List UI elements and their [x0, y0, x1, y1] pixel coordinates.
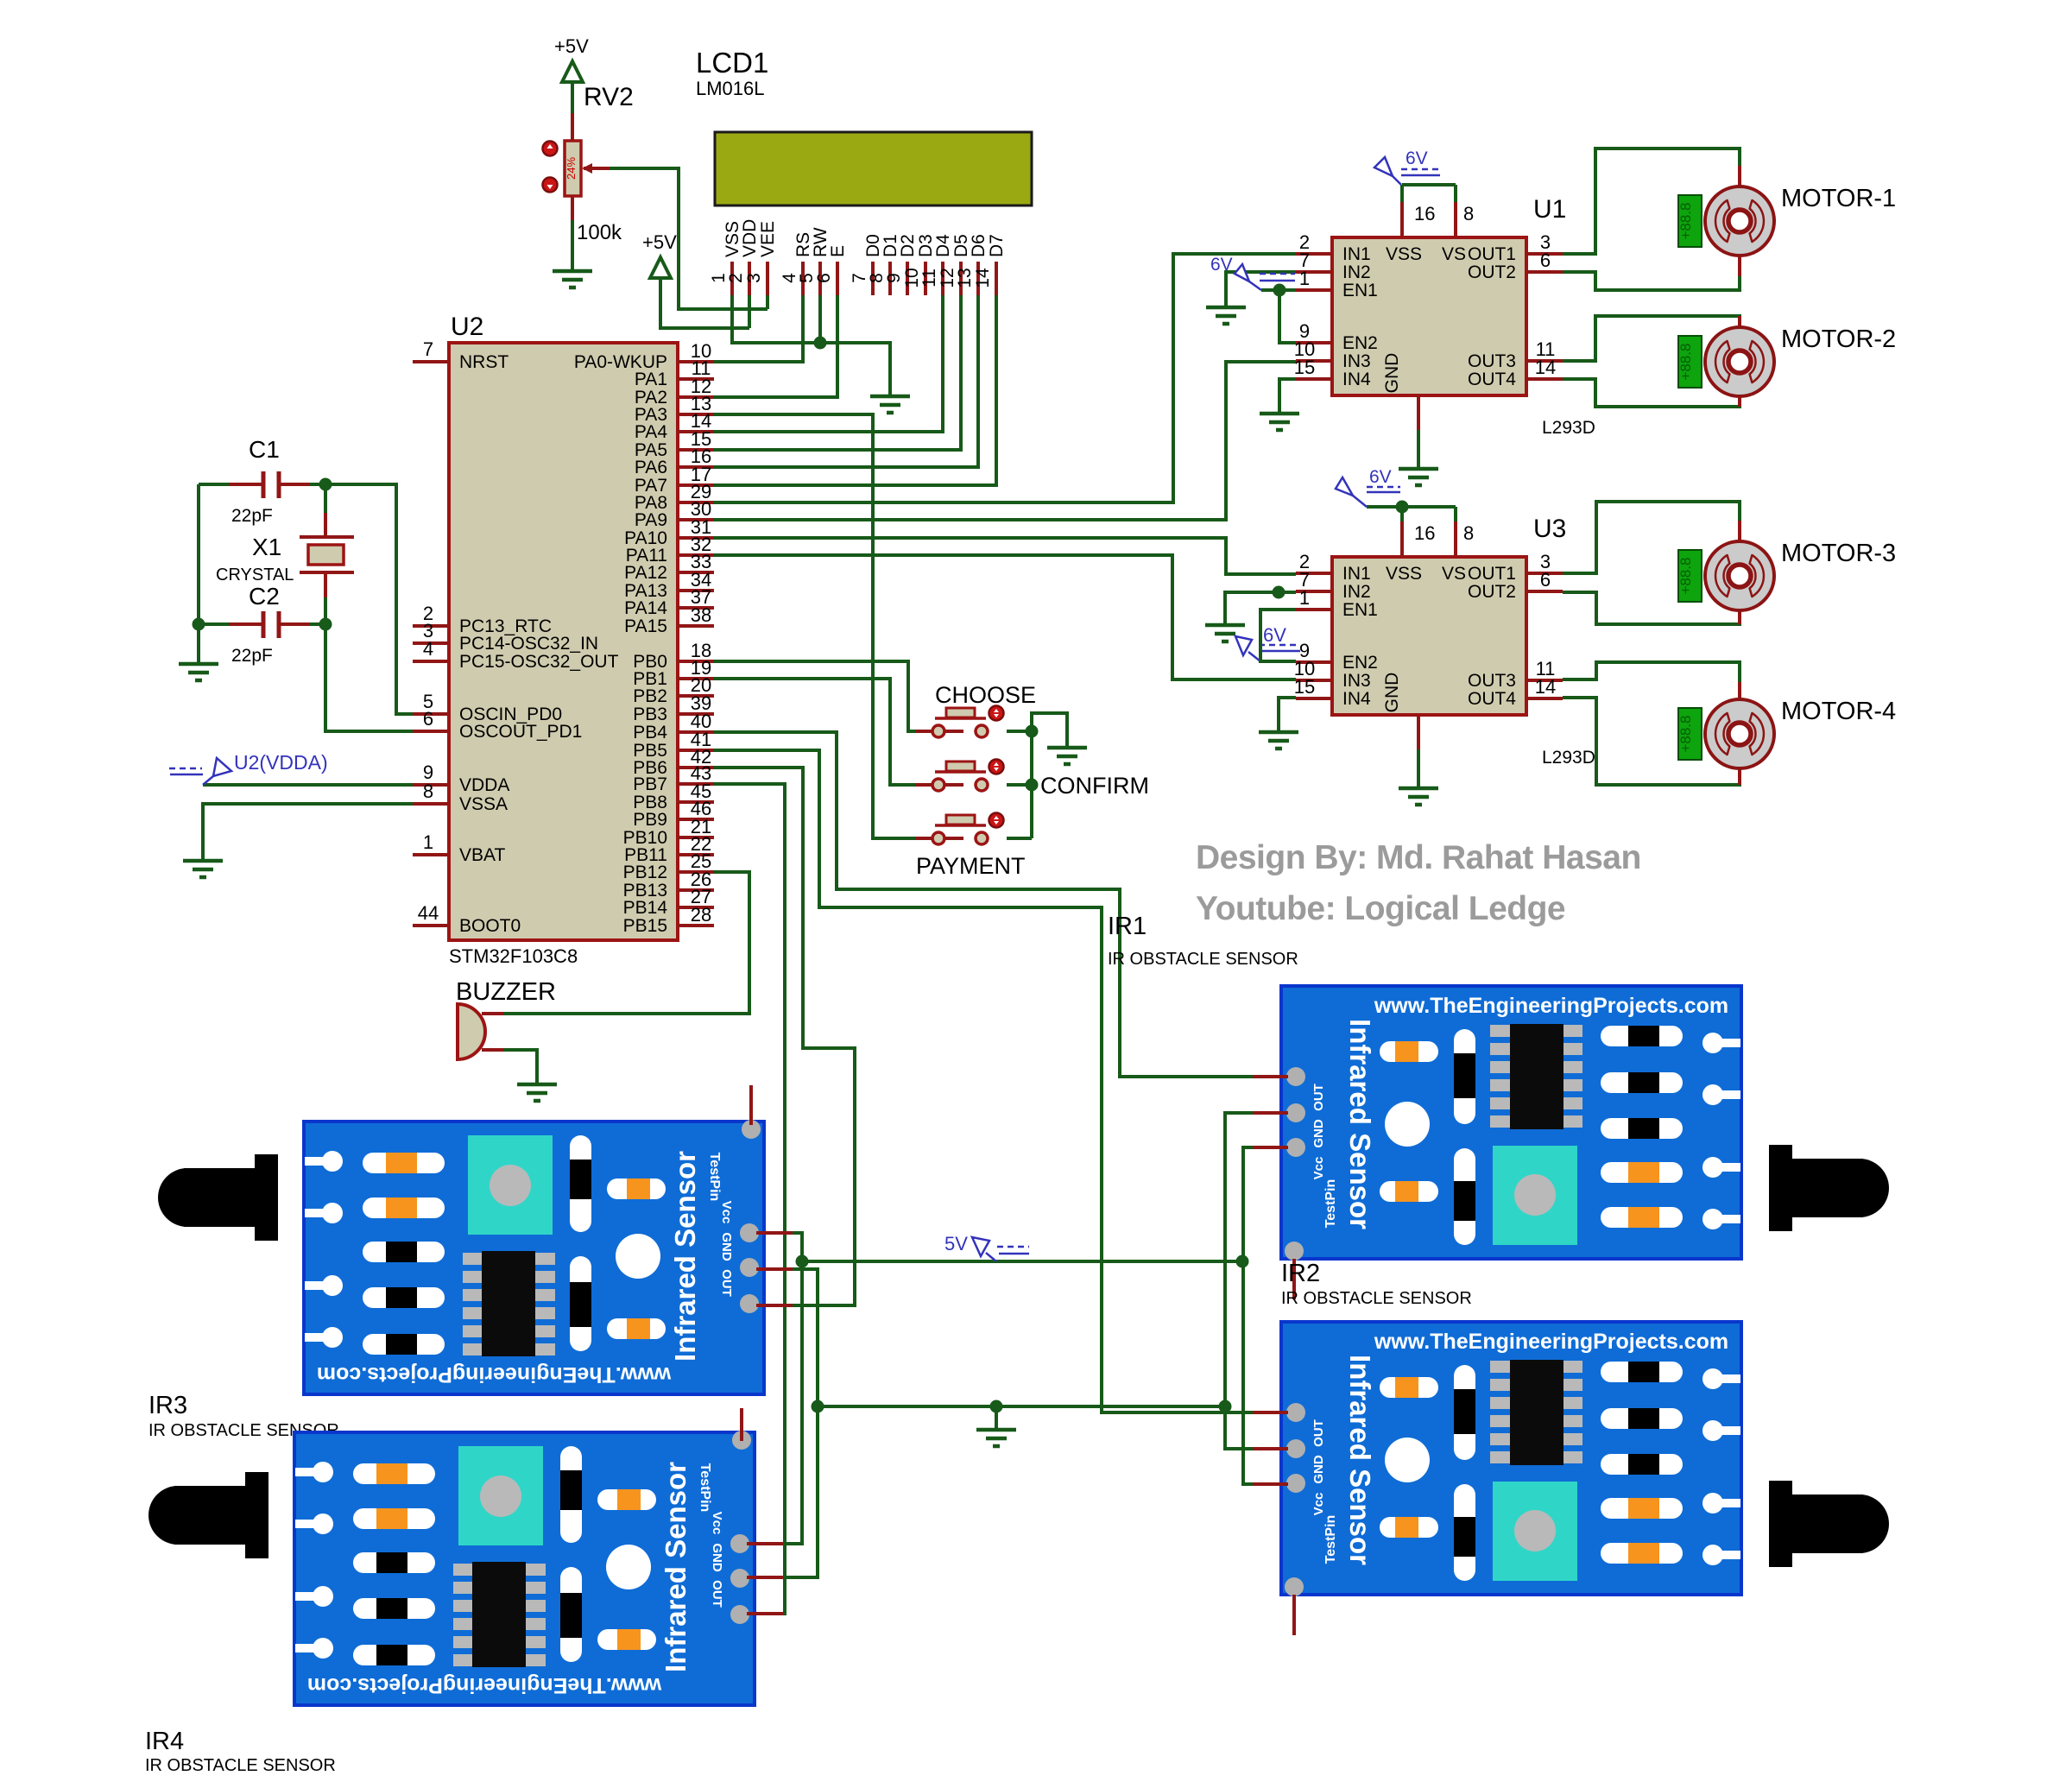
svg-text:IR OBSTACLE SENSOR: IR OBSTACLE SENSOR — [1281, 1289, 1472, 1308]
ground VSSA — [183, 861, 223, 877]
wire U2 PA9 to U1 IN3 — [714, 362, 1296, 520]
svg-text:STM32F103C8: STM32F103C8 — [449, 945, 578, 967]
wire U1 IN4 to ground — [1279, 379, 1296, 414]
svg-text:PC14-OSC32_IN: PC14-OSC32_IN — [459, 634, 598, 654]
junction confirm — [1026, 779, 1039, 792]
motor MOTOR-3 — [1677, 540, 1896, 610]
motor driver U1 L293D — [1294, 195, 1595, 438]
power flag 6V-U3en — [1235, 636, 1300, 661]
svg-text:+5V: +5V — [554, 35, 589, 57]
wire LCD D7 to U2 PA7 — [714, 295, 996, 485]
power flag 6V-U1top — [1374, 157, 1440, 185]
crystal X1 — [216, 534, 354, 585]
svg-text:VEE: VEE — [758, 221, 778, 257]
svg-text:PA6: PA6 — [635, 458, 667, 477]
wire U2 PB5 to IR2 OUT — [714, 750, 1253, 1412]
svg-text:Design By: Md. Rahat Hasan: Design By: Md. Rahat Hasan — [1196, 839, 1641, 876]
ground U3-IN4 — [1259, 732, 1298, 749]
wire U2 PB6 to IR3 OUT — [714, 768, 855, 1305]
svg-text:OSCOUT_PD1: OSCOUT_PD1 — [459, 722, 582, 742]
ground C1C2 — [179, 664, 218, 680]
svg-text:E: E — [828, 245, 848, 257]
svg-text:L293D: L293D — [1542, 418, 1595, 438]
microcontroller U2 STM32F103C8 — [413, 313, 714, 967]
svg-text:PA1: PA1 — [635, 370, 667, 389]
IR4 pin stubs — [742, 1408, 783, 1614]
wire U2 PA10 to U3 IN1 — [714, 538, 1296, 574]
capacitor C2 22pF — [231, 583, 280, 666]
ground buzzer — [517, 1084, 557, 1101]
svg-text:D2: D2 — [898, 234, 918, 257]
junction U3-6V — [1396, 501, 1409, 514]
wire U1 VSS,VS to 6V — [1402, 185, 1456, 202]
svg-text:U2: U2 — [451, 313, 483, 341]
wire U2 PB4 to IR1 OUT — [714, 732, 1253, 1077]
svg-text:PA9: PA9 — [635, 510, 667, 530]
svg-text:6V: 6V — [1369, 467, 1392, 487]
wire 5V rail — [802, 1260, 1242, 1263]
svg-text:PB12: PB12 — [623, 863, 667, 882]
buzzer BUZ1 — [456, 978, 556, 1059]
ground rail — [976, 1430, 1016, 1446]
wire U1 IN2 to ground — [1226, 272, 1296, 307]
wire LCD D5 to U2 PA5 — [714, 295, 961, 450]
svg-text:28: 28 — [691, 904, 711, 926]
IR sensor module IR4 — [145, 1431, 755, 1775]
ground RV2 — [553, 271, 592, 288]
svg-text:4: 4 — [423, 638, 433, 660]
svg-text:22pF: 22pF — [231, 506, 273, 526]
junction choose — [1026, 725, 1039, 738]
junction C2-X1 — [319, 618, 332, 631]
motor driver U3 L293D — [1294, 515, 1595, 768]
junction gnd-mid — [990, 1400, 1003, 1413]
IR2 pin stubs — [1253, 1412, 1294, 1635]
wire U3 VSS,VS to 6V — [1402, 507, 1456, 521]
ground U1-GND — [1399, 469, 1438, 485]
svg-text:6V: 6V — [1210, 255, 1233, 275]
IR sensor module IR2 — [1281, 1260, 1741, 1596]
wire U2 PB12 to buzzer — [503, 872, 749, 1014]
wire U1 GND pin to ground — [1417, 395, 1420, 430]
wire LCD VEE stub — [766, 295, 769, 309]
IR LED of IR2 — [1769, 1481, 1889, 1567]
svg-text:NRST: NRST — [459, 352, 509, 372]
wire CONFIRM to button bus — [1007, 783, 1032, 787]
svg-text:IR2: IR2 — [1281, 1260, 1320, 1287]
wire U1 OUT3 to MOTOR-2 — [1563, 316, 1740, 361]
wire LCD RS to U2 PA0 — [714, 295, 803, 362]
svg-text:PA14: PA14 — [624, 598, 667, 618]
svg-text:VDD: VDD — [740, 219, 760, 257]
svg-text:6: 6 — [814, 273, 834, 283]
power flag 6V-U1en — [1235, 264, 1295, 290]
svg-text:X1: X1 — [252, 534, 281, 560]
svg-text:RV2: RV2 — [584, 83, 634, 111]
svg-text:LM016L: LM016L — [696, 78, 765, 99]
wire C1 left to C2 left to ground — [199, 483, 229, 486]
svg-text:PA4: PA4 — [635, 422, 667, 442]
LCD1 pins — [709, 219, 1007, 295]
svg-text:14: 14 — [973, 268, 993, 288]
IR3 pin stubs — [751, 1085, 793, 1305]
ground U3-IN2 — [1205, 625, 1245, 641]
wire VSSA to ground — [203, 804, 413, 861]
svg-text:PAYMENT: PAYMENT — [916, 853, 1026, 879]
junction C2-left — [193, 618, 205, 631]
wire U3 GND pin to ground — [1417, 715, 1420, 749]
svg-text:VDDA: VDDA — [459, 775, 509, 795]
svg-text:3: 3 — [744, 273, 764, 283]
wire +5V to RV2 — [571, 82, 574, 113]
svg-text:7: 7 — [423, 338, 433, 360]
svg-text:PB3: PB3 — [633, 705, 667, 724]
power +5V arrow VDD — [642, 231, 677, 278]
svg-text:MOTOR-4: MOTOR-4 — [1781, 698, 1896, 725]
svg-text:PA15: PA15 — [624, 616, 667, 636]
wire LCD E to U2 PA2 — [714, 295, 837, 397]
svg-text:U3: U3 — [1533, 515, 1566, 543]
wire PAYMENT right to bus — [1007, 837, 1032, 840]
IR LED of IR1 — [1769, 1145, 1889, 1231]
svg-text:PA12: PA12 — [624, 563, 667, 583]
svg-text:PB2: PB2 — [633, 686, 667, 706]
wire U2 PB0 to CHOOSE — [714, 661, 916, 731]
svg-text:38: 38 — [691, 604, 711, 626]
junction C1-X1 — [319, 478, 332, 491]
wire rail to ground — [995, 1406, 998, 1430]
svg-text:13: 13 — [955, 268, 975, 288]
svg-text:6V: 6V — [1263, 624, 1286, 646]
IR1 pin stubs — [1253, 1077, 1294, 1299]
svg-text:24%: 24% — [565, 157, 578, 180]
junction U1-EN — [1273, 284, 1286, 297]
svg-text:D6: D6 — [969, 234, 989, 257]
wire U3 EN1 EN2 tie — [1260, 610, 1296, 661]
svg-text:100k: 100k — [577, 221, 622, 244]
svg-text:PB15: PB15 — [623, 916, 667, 936]
ground U1-IN2 — [1206, 307, 1246, 324]
svg-text:IR OBSTACLE SENSOR: IR OBSTACLE SENSOR — [1108, 950, 1298, 969]
wire U2 PB1 to CONFIRM — [714, 679, 916, 785]
wire U3 OUT1 to MOTOR-3 — [1563, 502, 1740, 573]
motor MOTOR-4 — [1677, 698, 1896, 768]
wire +5V to LCD VDD — [660, 278, 749, 328]
junction U3-IN2 — [1273, 586, 1286, 599]
wire LCD D4 to U2 PA4 — [714, 295, 943, 432]
ground U1-IN4 — [1260, 414, 1299, 430]
svg-text:44: 44 — [418, 902, 439, 924]
svg-text:9: 9 — [884, 273, 904, 283]
svg-text:U1: U1 — [1533, 195, 1566, 224]
junction 5v-right — [1236, 1255, 1249, 1268]
svg-text:1: 1 — [423, 831, 433, 853]
svg-text:6V: 6V — [1406, 148, 1428, 168]
junction 5v-left — [796, 1255, 809, 1268]
wire U2 PA11 to U3 IN3 — [714, 555, 1296, 679]
svg-text:C2: C2 — [249, 583, 280, 610]
svg-text:D7: D7 — [987, 234, 1007, 257]
svg-text:2: 2 — [726, 273, 746, 283]
wire U3 OUT3 to MOTOR-4 — [1563, 662, 1740, 682]
svg-text:PB7: PB7 — [633, 774, 667, 794]
IR sensor module IR3 — [148, 1120, 764, 1440]
wire CHOOSE to ground — [1007, 713, 1067, 748]
wire IR3 GND down rail to IR4 GND — [783, 1269, 818, 1577]
ground U3-GND — [1399, 788, 1438, 805]
junction gnd-left — [812, 1400, 824, 1413]
svg-text:IR OBSTACLE SENSOR: IR OBSTACLE SENSOR — [145, 1756, 336, 1775]
wire RV2 bottom to ground — [571, 220, 574, 271]
wire U3 OUT4 to MOTOR-4 — [1563, 698, 1740, 785]
svg-text:Youtube: Logical Ledge: Youtube: Logical Ledge — [1196, 890, 1565, 927]
svg-text:D4: D4 — [933, 234, 953, 257]
svg-text:MOTOR-2: MOTOR-2 — [1781, 325, 1896, 353]
svg-text:U2(VDDA): U2(VDDA) — [234, 751, 328, 774]
wire IR1 Vcc down to rail to IR2 Vcc — [1243, 1147, 1253, 1484]
wire C2 right to crystal bottom to OSCOUT — [309, 622, 325, 626]
ground buttons — [1047, 748, 1087, 764]
svg-text:5V: 5V — [944, 1233, 968, 1254]
svg-text:6: 6 — [423, 708, 433, 730]
svg-text:MOTOR-3: MOTOR-3 — [1781, 540, 1896, 567]
svg-text:22pF: 22pF — [231, 646, 273, 666]
IR sensor module IR1 — [1108, 913, 1741, 1261]
svg-text:LCD1: LCD1 — [696, 47, 768, 79]
wire U2 PB7 to IR4 OUT — [714, 784, 785, 1614]
svg-text:BOOT0: BOOT0 — [459, 916, 521, 936]
svg-text:IR1: IR1 — [1108, 913, 1147, 940]
wire IR1 GND to rail to IR2 GND — [1225, 1113, 1253, 1449]
wire U2 PA8 to U1 IN1 — [714, 254, 1296, 502]
svg-text:PB14: PB14 — [623, 898, 668, 918]
IR LED of IR3 — [158, 1154, 278, 1241]
power flag U2(VDDA) — [169, 758, 231, 785]
wire LCD VSS and RW to ground — [732, 295, 890, 396]
motor MOTOR-1 — [1677, 185, 1896, 256]
wire U3 IN4 to ground — [1279, 698, 1296, 732]
wire buzzer to ground — [503, 1050, 537, 1084]
wire U1 EN1 EN2 tie — [1261, 288, 1296, 292]
wire U1 OUT4 to MOTOR-2 — [1563, 379, 1740, 407]
svg-text:BUZZER: BUZZER — [456, 978, 556, 1006]
svg-text:CRYSTAL: CRYSTAL — [216, 566, 294, 585]
svg-text:11: 11 — [919, 269, 939, 288]
svg-text:PC15-OSC32_OUT: PC15-OSC32_OUT — [459, 652, 619, 672]
svg-text:IR4: IR4 — [145, 1728, 184, 1755]
svg-text:L293D: L293D — [1542, 748, 1595, 768]
wire U2 PA3 to PAYMENT — [714, 414, 916, 838]
svg-text:VSSA: VSSA — [459, 794, 508, 814]
wire LCD VDD stub — [748, 295, 751, 328]
wire U1 OUT2 to MOTOR-1 — [1563, 272, 1740, 290]
LCD1 LM016L display — [696, 47, 1032, 205]
power +5V arrow RV2 — [554, 35, 589, 82]
power flag 5V — [972, 1237, 1029, 1261]
motor MOTOR-2 — [1677, 325, 1896, 396]
svg-text:CHOOSE: CHOOSE — [935, 682, 1036, 708]
svg-text:PB9: PB9 — [633, 810, 667, 830]
wire IR3 Vcc to rail to IR4 Vcc — [783, 1233, 802, 1544]
wire U1 OUT1 to MOTOR-1 — [1563, 148, 1740, 254]
svg-text:PB4: PB4 — [633, 723, 667, 742]
svg-text:C1: C1 — [249, 436, 280, 463]
junction gnd-right — [1219, 1400, 1232, 1413]
IR LED of IR4 — [148, 1472, 268, 1558]
wire GND rail — [818, 1405, 1225, 1408]
svg-text:8: 8 — [423, 780, 433, 802]
resistor RV2 100k potentiometer — [543, 83, 634, 244]
svg-text:MOTOR-1: MOTOR-1 — [1781, 185, 1896, 212]
wire U3 IN2 to ground — [1225, 592, 1296, 625]
svg-text:+5V: +5V — [642, 231, 677, 253]
wire U3 OUT2 to MOTOR-3 — [1563, 592, 1740, 624]
wire C1 right to crystal top to OSCIN — [309, 484, 413, 714]
power flag U2(VDDA) — [203, 783, 413, 787]
svg-text:VBAT: VBAT — [459, 845, 505, 865]
capacitor C1 22pF — [231, 436, 280, 526]
svg-text:IR3: IR3 — [148, 1392, 187, 1419]
svg-text:CONFIRM: CONFIRM — [1040, 773, 1149, 799]
power flag 6V-U3top — [1336, 477, 1400, 507]
wire RV2 wiper to LCD VEE — [610, 168, 768, 309]
wire LCD D6 to U2 PA6 — [714, 295, 978, 467]
junction VSS-RW — [814, 337, 827, 350]
ground VSS-RW — [870, 396, 910, 413]
